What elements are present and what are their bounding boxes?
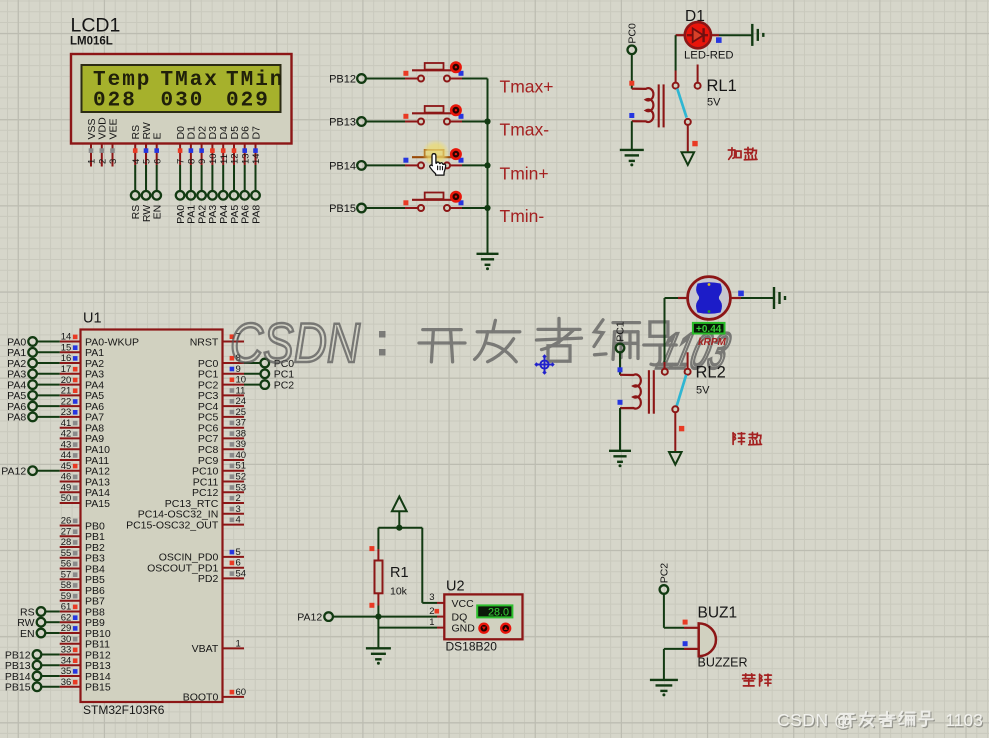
- ground: [609, 451, 631, 462]
- svg-text:DS18B20: DS18B20: [446, 640, 498, 654]
- svg-text:U1: U1: [83, 311, 102, 327]
- svg-text:U2: U2: [446, 579, 465, 595]
- button actuator: [451, 149, 460, 158]
- svg-text:41: 41: [61, 418, 72, 429]
- U1 pin 16 PA2: [60, 362, 81, 364]
- wire to R1: [377, 528, 379, 549]
- U1 pin 36 PB15: [60, 686, 81, 688]
- ground (rotated): [774, 287, 785, 309]
- U1 pin 45 PA12: [60, 470, 81, 472]
- svg-text:PB12: PB12: [329, 74, 356, 86]
- U1 pin 9 PC1: [223, 373, 245, 375]
- junction node: [484, 162, 490, 168]
- wire GND pin: [378, 627, 437, 629]
- U1 pin 23 PA7: [60, 416, 81, 418]
- svg-text:PB14: PB14: [329, 160, 356, 172]
- ground: [366, 648, 391, 659]
- svg-text:4: 4: [131, 159, 142, 164]
- svg-text:53: 53: [236, 482, 247, 493]
- svg-text:5: 5: [236, 547, 241, 558]
- svg-text:LCD1: LCD1: [71, 15, 121, 37]
- U1 pin 43 PA10: [60, 448, 81, 450]
- junction node: [375, 614, 381, 620]
- svg-text:VEE: VEE: [107, 118, 119, 139]
- svg-text:PA15: PA15: [85, 498, 110, 510]
- svg-text:CSDN: CSDN: [230, 311, 360, 374]
- svg-text:58: 58: [61, 580, 72, 591]
- svg-text:14: 14: [61, 332, 72, 343]
- svg-text:PA8: PA8: [7, 412, 26, 424]
- svg-text:030: 030: [161, 90, 205, 113]
- U1 pin 21 PA5: [60, 394, 81, 396]
- U1 pin 6 OSCOUT_PD1: [223, 567, 245, 569]
- svg-text:EN: EN: [20, 628, 35, 640]
- bus wire buttons to ground: [487, 79, 489, 254]
- wire PB12 to button: [366, 78, 405, 80]
- svg-text:26: 26: [61, 516, 72, 527]
- push button PB15: [405, 207, 418, 209]
- wire PC1 to RL2 coil: [619, 352, 621, 375]
- svg-text:4: 4: [236, 515, 241, 526]
- wire button to bus: [462, 121, 488, 123]
- press highlight: [422, 139, 450, 167]
- U1 pin 17 PA3: [60, 373, 81, 375]
- svg-text:PC2: PC2: [659, 563, 671, 584]
- svg-text:28.0: 28.0: [488, 607, 509, 619]
- svg-text:12: 12: [230, 153, 241, 164]
- svg-text:45: 45: [61, 461, 72, 472]
- svg-text:5V: 5V: [707, 97, 721, 109]
- motor FAN: [688, 277, 731, 320]
- svg-text:3: 3: [429, 592, 434, 603]
- svg-text:2: 2: [429, 606, 434, 617]
- U1 pin 61 PB8: [60, 611, 81, 613]
- svg-text:+0.44: +0.44: [696, 324, 722, 335]
- svg-text:kRPM: kRPM: [698, 337, 726, 348]
- svg-text:PB15: PB15: [329, 203, 356, 215]
- junction node: [484, 118, 490, 124]
- relay RL2 coil: [620, 374, 641, 408]
- svg-text:46: 46: [61, 472, 72, 483]
- svg-text:50: 50: [61, 493, 72, 504]
- svg-text:3: 3: [236, 504, 241, 515]
- U2 temperature display: [477, 605, 512, 617]
- svg-text:24: 24: [236, 396, 247, 407]
- ground (rotated): [752, 24, 763, 46]
- label JingBao (alarm): [743, 674, 755, 676]
- U1 pin 37 PC6: [223, 427, 245, 429]
- U1 pin 7 NRST: [223, 341, 245, 343]
- svg-text:11: 11: [236, 385, 246, 396]
- svg-text:44: 44: [61, 450, 72, 461]
- U1 pin 49 PA14: [60, 491, 81, 493]
- svg-text:RL2: RL2: [696, 364, 726, 382]
- svg-text:38: 38: [236, 428, 247, 439]
- ground: [477, 254, 499, 265]
- svg-text:PB13: PB13: [329, 117, 356, 129]
- watermark CSDN kai-fa-zhe-bian-hao-1103: [230, 311, 735, 380]
- wire LED to relay pole: [675, 35, 677, 70]
- U1 pin 42 PA9: [60, 437, 81, 439]
- svg-text:STM32F103R6: STM32F103R6: [83, 703, 165, 717]
- svg-text:BOOT0: BOOT0: [183, 692, 219, 704]
- relay RL1 NO contact: [697, 65, 699, 83]
- svg-text:PC2: PC2: [274, 379, 295, 391]
- U1 pin 29 PB10: [60, 632, 81, 634]
- svg-text:10: 10: [208, 153, 219, 164]
- U1 pin 44 PA11: [60, 459, 81, 461]
- wire button to bus: [462, 164, 488, 166]
- relay RL1 common contact: [685, 119, 691, 125]
- U1 pin 14 PA0-WKUP: [60, 341, 81, 343]
- svg-text:Tmax-: Tmax-: [500, 120, 550, 140]
- wire PB14 to button: [366, 164, 405, 166]
- svg-text:60: 60: [236, 687, 247, 698]
- svg-text:PC0: PC0: [626, 23, 638, 44]
- svg-text:6: 6: [152, 159, 163, 164]
- button actuator: [451, 192, 460, 201]
- wire to output arrow: [674, 412, 676, 451]
- svg-text:Tmin-: Tmin-: [500, 206, 545, 226]
- output arrow: [682, 152, 695, 165]
- svg-text:PA12: PA12: [297, 611, 322, 623]
- svg-text:52: 52: [236, 472, 247, 483]
- svg-text:59: 59: [61, 591, 72, 602]
- U1 pin 33 PB12: [60, 654, 81, 656]
- terminal PC1 (relay RL2 drive): [616, 344, 625, 353]
- svg-text:BUZZER: BUZZER: [698, 656, 748, 670]
- U1 pin 26 PB0: [60, 525, 81, 527]
- junction node: [484, 205, 490, 211]
- temperature sensor U2 DS18B20 body: [444, 594, 522, 639]
- terminal PC1: [244, 373, 261, 375]
- U1 pin 15 PA1: [60, 351, 81, 353]
- svg-text:57: 57: [61, 570, 72, 581]
- svg-text:D7: D7: [250, 126, 262, 140]
- svg-text:PD2: PD2: [198, 573, 219, 585]
- push button PB12: [405, 78, 418, 80]
- terminal PC2: [244, 384, 261, 386]
- svg-text:34: 34: [61, 656, 72, 667]
- svg-text:8: 8: [187, 159, 198, 164]
- svg-text:R1: R1: [390, 565, 409, 581]
- svg-text:23: 23: [61, 407, 72, 418]
- wire PC2 to buzzer: [663, 594, 665, 628]
- svg-text:Tmax+: Tmax+: [500, 77, 554, 97]
- LCD pin stubs and numbers: [90, 144, 92, 167]
- LCD terminal wires: [134, 165, 136, 191]
- U1 pin 52 PC11: [223, 481, 245, 483]
- U1 pin 41 PA8: [60, 427, 81, 429]
- svg-text:PA12: PA12: [1, 466, 26, 478]
- U1 pin 28 PB2: [60, 546, 81, 548]
- wire LED to ground: [716, 37, 722, 43]
- svg-text:43: 43: [61, 439, 72, 450]
- wire R1 to node: [377, 593, 379, 605]
- svg-text:5: 5: [142, 159, 153, 164]
- svg-text:51: 51: [236, 461, 247, 472]
- U1 pin 30 PB11: [60, 643, 81, 645]
- svg-text:Tmin+: Tmin+: [500, 163, 549, 183]
- svg-text:35: 35: [61, 666, 72, 677]
- wire button to bus: [462, 207, 488, 209]
- U1 pin 55 PB3: [60, 557, 81, 559]
- wire PB13 to button: [366, 121, 405, 123]
- wire power rail: [378, 527, 422, 529]
- svg-text:PB15: PB15: [85, 682, 111, 694]
- label JiaRe (heating): [728, 149, 735, 151]
- terminal PC0: [244, 362, 261, 364]
- terminal PC0 (relay RL1 drive): [628, 46, 637, 55]
- output arrow: [669, 452, 682, 465]
- svg-text:2: 2: [97, 159, 108, 164]
- svg-text:56: 56: [61, 559, 72, 570]
- U1 pin 58 PB6: [60, 589, 81, 591]
- svg-text:27: 27: [61, 527, 72, 538]
- LCD screen: [82, 65, 281, 112]
- svg-text:029: 029: [226, 90, 270, 113]
- wire PA12 to DQ: [333, 616, 437, 618]
- U1 pin 4 PC15-OSC32_OUT: [223, 524, 245, 526]
- U1 pin 38 PC7: [223, 437, 245, 439]
- relay RL1 switch blade: [677, 89, 686, 118]
- label JiangWen (cooling): [732, 433, 734, 445]
- wire motor right to ground: [730, 297, 741, 299]
- relay RL2 pole contact: [662, 369, 668, 375]
- svg-text:40: 40: [236, 450, 247, 461]
- svg-text:10k: 10k: [390, 586, 408, 598]
- svg-text:25: 25: [236, 407, 247, 418]
- svg-text:7: 7: [176, 159, 187, 164]
- U1 pin 25 PC5: [223, 416, 245, 418]
- svg-text:15: 15: [61, 343, 72, 354]
- U1 pin 56 PB4: [60, 568, 81, 570]
- U2 up button: [501, 624, 510, 633]
- svg-text:RL1: RL1: [707, 77, 737, 95]
- svg-text:62: 62: [61, 613, 72, 624]
- svg-text:54: 54: [236, 568, 247, 579]
- microcontroller U1 STM32F103R6 body: [81, 330, 223, 703]
- svg-text:PA8: PA8: [250, 205, 262, 224]
- svg-text:17: 17: [61, 364, 72, 375]
- svg-text:1: 1: [429, 617, 434, 628]
- U1 pin 40 PC9: [223, 459, 245, 461]
- U1 pin 62 PB9: [60, 621, 81, 623]
- relay RL2 switch blade: [677, 375, 687, 407]
- relay RL1 pole contact: [673, 83, 679, 89]
- relay RL2 core: [648, 370, 650, 414]
- ground: [620, 150, 644, 161]
- svg-text:33: 33: [61, 645, 72, 656]
- LCD LM016L body: [71, 54, 292, 144]
- push button PB13: [405, 121, 418, 123]
- svg-text:28: 28: [61, 537, 72, 548]
- svg-text:61: 61: [61, 602, 72, 613]
- LCD terminals RS RW EN PA0-PA8: [131, 191, 140, 200]
- LED D1: [676, 34, 685, 36]
- wire coil to ground: [619, 408, 621, 451]
- svg-text:39: 39: [236, 439, 247, 450]
- svg-text:EN: EN: [152, 205, 164, 220]
- svg-text:1: 1: [236, 638, 241, 649]
- svg-text:55: 55: [61, 548, 72, 559]
- relay RL1 coil: [632, 88, 654, 122]
- watermark CSDN @ bottom right: [778, 711, 984, 731]
- svg-text:PC15-OSC32_OUT: PC15-OSC32_OUT: [126, 519, 219, 531]
- U1 pin 8 PC0: [223, 362, 245, 364]
- svg-text:PC1: PC1: [615, 321, 627, 342]
- U1 pin 10 PC2: [223, 384, 245, 386]
- U1 pin 11 PC3: [223, 394, 245, 396]
- U1 pin 5 OSCIN_PD0: [223, 556, 245, 558]
- U1 pin 53 PC12: [223, 491, 245, 493]
- svg-text:BUZ1: BUZ1: [698, 605, 738, 622]
- svg-text:20: 20: [61, 375, 72, 386]
- power arrow: [392, 497, 407, 512]
- svg-text:1: 1: [87, 159, 98, 164]
- svg-text:14: 14: [251, 153, 262, 164]
- wire node to ground: [377, 617, 379, 649]
- relay RL1 core: [658, 84, 660, 127]
- svg-text:1103: 1103: [945, 710, 983, 730]
- svg-text:NRST: NRST: [190, 336, 219, 348]
- relay RL2 common contact: [672, 406, 678, 412]
- U1 pin 2 PC13_RTC: [223, 502, 245, 504]
- svg-text:11: 11: [219, 154, 230, 164]
- svg-text:028: 028: [93, 90, 137, 113]
- buzzer BUZ1: [699, 623, 716, 656]
- svg-text:LED-RED: LED-RED: [684, 50, 734, 62]
- svg-text:42: 42: [61, 429, 72, 440]
- resistor R1: [375, 561, 383, 594]
- wire PC0 to coil: [631, 54, 633, 89]
- wire PB15 to button: [366, 207, 405, 209]
- U1 pin 20 PA4: [60, 384, 81, 386]
- svg-text:VCC: VCC: [452, 598, 475, 610]
- U1 pin 60 BOOT0: [223, 696, 245, 698]
- svg-text:49: 49: [61, 483, 72, 494]
- U1 pin 1 VBAT: [223, 647, 245, 649]
- svg-text:2: 2: [236, 493, 241, 504]
- U1 pin 46 PA13: [60, 481, 81, 483]
- U1 pin 22 PA6: [60, 405, 81, 407]
- U1 pin 50 PA15: [60, 502, 81, 504]
- svg-text:3: 3: [108, 159, 119, 164]
- svg-text:22: 22: [61, 396, 72, 407]
- wire to output arrow: [687, 125, 689, 152]
- svg-text:LM016L: LM016L: [70, 36, 113, 48]
- svg-text:37: 37: [236, 418, 247, 429]
- button actuator: [451, 106, 460, 115]
- U1 pin 35 PB14: [60, 675, 81, 677]
- relay RL2 NO contact: [687, 352, 689, 368]
- wire button to bus: [462, 78, 488, 80]
- terminal PC2 (buzzer drive): [660, 585, 669, 594]
- U1 pin 59 PB7: [60, 600, 81, 602]
- wire VCC pin: [421, 528, 423, 603]
- svg-text:5V: 5V: [696, 385, 710, 397]
- svg-text:21: 21: [61, 386, 72, 397]
- button actuator: [451, 62, 460, 71]
- motor rpm display: [693, 323, 725, 334]
- svg-text:16: 16: [61, 353, 72, 364]
- svg-text:29: 29: [61, 623, 72, 634]
- svg-text:30: 30: [61, 634, 72, 645]
- wire motor left to relay RL2 pole: [678, 297, 688, 299]
- U1 pin 3 PC14-OSC32_IN: [223, 513, 245, 515]
- crosshair cursor: [537, 357, 553, 373]
- svg-text:PB15: PB15: [5, 682, 31, 694]
- junction node: [396, 525, 402, 531]
- ground: [650, 680, 678, 691]
- U1 pin 51 PC10: [223, 470, 245, 472]
- svg-text:GND: GND: [452, 623, 476, 635]
- wire coil to ground: [631, 121, 633, 150]
- U1 pin 54 PD2: [223, 577, 245, 579]
- U1 pin 27 PB1: [60, 535, 81, 537]
- wire buzzer to ground: [664, 648, 684, 650]
- U1 pin 57 PB5: [60, 578, 81, 580]
- U1 pin 39 PC8: [223, 448, 245, 450]
- svg-text:13: 13: [240, 153, 251, 164]
- svg-text:36: 36: [61, 677, 72, 688]
- svg-text:6: 6: [236, 558, 241, 569]
- push button PB14: [405, 164, 418, 166]
- U1 pin 34 PB13: [60, 664, 81, 666]
- U2 down button: [479, 624, 488, 633]
- hand cursor: [430, 154, 446, 175]
- svg-text:E: E: [152, 132, 164, 139]
- svg-text:9: 9: [197, 159, 208, 164]
- svg-text:VBAT: VBAT: [192, 643, 219, 655]
- U1 pin 24 PC4: [223, 405, 245, 407]
